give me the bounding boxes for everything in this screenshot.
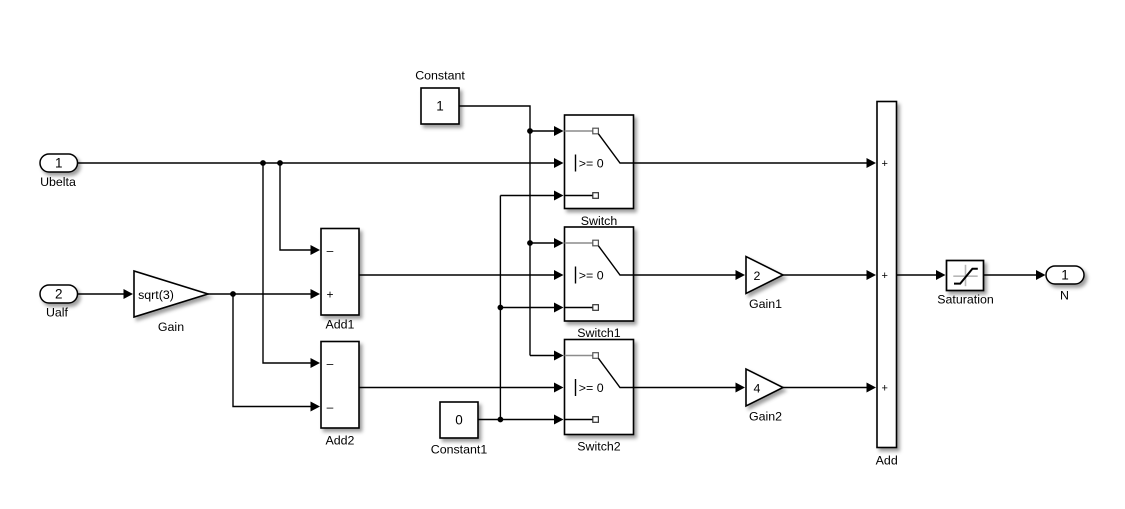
svg-text:Add2: Add2	[326, 433, 355, 447]
arrowhead into Gain1	[736, 270, 746, 280]
svg-text:+: +	[881, 270, 887, 282]
inport 1 Ubelta	[40, 154, 78, 189]
arrowhead into Switch2 pin 2	[554, 383, 564, 393]
arrowhead into Switch2 pin 1	[554, 351, 564, 361]
sum Add	[876, 102, 898, 468]
svg-text:+: +	[326, 287, 333, 301]
node junction bus530 at Switch1 input 1	[527, 240, 533, 246]
wire Gain1 to Add input 2	[783, 274, 873, 276]
svg-text:Saturation: Saturation	[937, 292, 994, 306]
switch Switch	[565, 115, 634, 228]
arrowhead into Add2 pin 2	[311, 402, 321, 412]
svg-text:Switch2: Switch2	[577, 439, 620, 453]
constant Constant1 value 0	[431, 402, 488, 456]
svg-text:2: 2	[754, 269, 761, 283]
wire Switch to Add input 1	[634, 162, 874, 164]
svg-text:>= 0: >= 0	[579, 381, 604, 395]
node junction on Ubelta line at x263	[260, 160, 266, 166]
switch Switch1	[565, 227, 634, 340]
svg-text:Add: Add	[876, 453, 898, 467]
wire Add2 to Switch2 input 2	[359, 387, 560, 389]
svg-text:Gain2: Gain2	[749, 410, 782, 424]
svg-text:sqrt(3): sqrt(3)	[138, 288, 174, 302]
svg-text:+: +	[881, 383, 887, 395]
wire branch Gain to Add2 input 2	[233, 294, 317, 407]
svg-text:Constant: Constant	[415, 68, 465, 82]
node junction on Gain output	[230, 291, 236, 297]
switch Switch2	[565, 340, 634, 454]
svg-text:>= 0: >= 0	[579, 156, 604, 170]
wire Add to Saturation	[897, 274, 943, 276]
sum Add1	[321, 229, 359, 332]
svg-text:Switch1: Switch1	[577, 326, 620, 340]
wire Constant to bus	[459, 106, 530, 131]
wire branch to Add2 input 1	[263, 163, 317, 363]
arrowhead into Switch pin 2	[554, 158, 564, 168]
wire Gain2 to Add input 3	[783, 387, 873, 389]
svg-text:+: +	[881, 158, 887, 170]
svg-text:–: –	[327, 356, 334, 370]
arrowhead into Add pin 2	[867, 270, 877, 280]
svg-text:–: –	[327, 243, 334, 257]
wire Gain to Add1 input 2	[208, 293, 317, 295]
arrowhead into Switch2 pin 3	[554, 415, 564, 425]
wire branch to Add1 input 1	[280, 163, 317, 250]
arrowhead into Switch1 pin 1	[554, 238, 564, 248]
svg-text:4: 4	[754, 381, 761, 395]
arrowhead into Gain2	[736, 383, 746, 393]
gain Gain sqrt(3)	[134, 271, 208, 334]
svg-text:Switch: Switch	[581, 214, 618, 228]
svg-text:N: N	[1060, 288, 1069, 302]
svg-text:0: 0	[455, 413, 463, 428]
svg-text:Constant1: Constant1	[431, 442, 488, 456]
arrowhead into Add pin 3	[867, 383, 877, 393]
wire Ualf to Gain	[77, 293, 130, 295]
arrowhead into Switch1 pin 3	[554, 303, 564, 313]
svg-text:Ualf: Ualf	[46, 305, 69, 319]
node junction on Ubelta line at x280	[277, 160, 283, 166]
svg-text:>= 0: >= 0	[579, 268, 604, 282]
wire Saturation to outport N	[984, 274, 1043, 276]
inport 2 Ualf	[40, 285, 78, 319]
svg-text:Gain1: Gain1	[749, 297, 782, 311]
gain Gain1 value 2	[746, 257, 783, 312]
svg-text:1: 1	[55, 156, 63, 171]
gain Gain2 value 4	[746, 369, 783, 424]
svg-text:Add1: Add1	[326, 317, 355, 331]
wire Switch1 to Gain1	[634, 274, 743, 276]
svg-text:2: 2	[55, 287, 63, 302]
wire Add1 to Switch1 input 2	[359, 274, 560, 276]
wire Constant1 to Switch2 input 3	[478, 419, 560, 421]
arrowhead into Switch pin 1	[554, 126, 564, 136]
wire bus x500 up to Switch input 3	[500, 196, 560, 420]
sum Add2	[321, 342, 359, 448]
saturation Saturation	[937, 261, 994, 307]
arrowhead into Switch pin 3	[554, 191, 564, 201]
wire Ubelta to Switch input 2	[77, 162, 560, 164]
svg-text:Ubelta: Ubelta	[40, 175, 76, 189]
svg-text:–: –	[327, 400, 334, 414]
arrowhead into Add2 pin 1	[311, 358, 321, 368]
svg-text:1: 1	[1061, 268, 1069, 283]
svg-text:Gain: Gain	[158, 320, 184, 334]
node junction bus500 at Switch1 input 3	[498, 305, 504, 311]
svg-text:1: 1	[436, 99, 444, 114]
arrowhead into Saturation	[936, 270, 946, 280]
constant Constant value 1	[415, 68, 465, 124]
wire bus x530 down to Switch2 input 1	[530, 131, 560, 356]
arrowhead into Switch1 pin 2	[554, 270, 564, 280]
node junction bus500 at Constant1 output	[498, 417, 504, 423]
arrowhead into outport N	[1036, 270, 1046, 280]
arrowhead into Add1 pin 1	[311, 245, 321, 255]
wire Switch2 to Gain2	[634, 387, 743, 389]
outport 1 N	[1046, 266, 1084, 302]
arrowhead into Add1 pin 2	[311, 289, 321, 299]
arrowhead into Add pin 1	[867, 158, 877, 168]
arrowhead into Gain	[124, 289, 134, 299]
node junction bus530 at Switch input 1	[527, 128, 533, 134]
